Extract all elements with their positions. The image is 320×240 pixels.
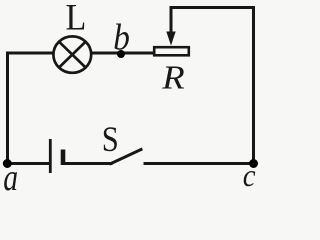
svg-text:R: R bbox=[161, 58, 185, 96]
svg-text:S: S bbox=[102, 120, 119, 160]
svg-text:L: L bbox=[66, 0, 87, 38]
svg-text:a: a bbox=[3, 158, 18, 191]
svg-text:c: c bbox=[243, 158, 256, 191]
svg-text:b: b bbox=[113, 17, 130, 58]
